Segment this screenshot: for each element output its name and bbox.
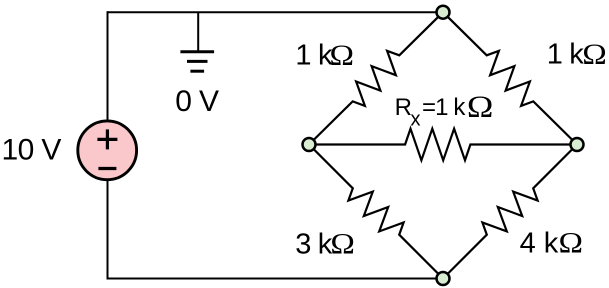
svg-text:10 V: 10 V — [2, 133, 62, 166]
minus sign — [98, 167, 116, 170]
node right — [571, 138, 584, 151]
svg-text:R: R — [395, 94, 412, 121]
svg-text:Ω: Ω — [467, 90, 493, 124]
node bottom — [437, 272, 450, 285]
svg-text:=1 k: =1 k — [422, 94, 466, 121]
resistor R1 1k top-left — [309, 12, 443, 144]
svg-text:Ω: Ω — [330, 227, 355, 260]
resistor R3 3k bottom-left — [309, 145, 443, 279]
wire bottom horizontal rail — [108, 278, 444, 280]
svg-text:Ω: Ω — [330, 38, 355, 71]
wire left vertical top segment — [107, 11, 109, 121]
plus sign — [97, 129, 117, 149]
resistor R4 4k bottom-right — [443, 145, 577, 279]
svg-text:x: x — [411, 108, 421, 130]
wire left vertical bottom segment — [107, 180, 109, 280]
svg-text:Ω: Ω — [582, 37, 607, 70]
ground stub wire — [197, 12, 199, 50]
svg-text:3 k: 3 k — [295, 228, 333, 260]
node top — [437, 6, 450, 19]
ground symbol — [180, 52, 214, 71]
node left — [303, 138, 316, 151]
resistor Rx middle — [309, 129, 577, 161]
resistor R2 1k top-right — [443, 12, 577, 144]
voltage source V1 10V — [78, 121, 137, 180]
svg-text:1 k: 1 k — [295, 40, 333, 72]
svg-text:0 V: 0 V — [175, 85, 219, 118]
svg-text:Ω: Ω — [559, 226, 584, 259]
svg-text:4 k: 4 k — [520, 227, 559, 259]
svg-text:1 k: 1 k — [547, 39, 585, 71]
wire top horizontal rail — [108, 11, 444, 13]
